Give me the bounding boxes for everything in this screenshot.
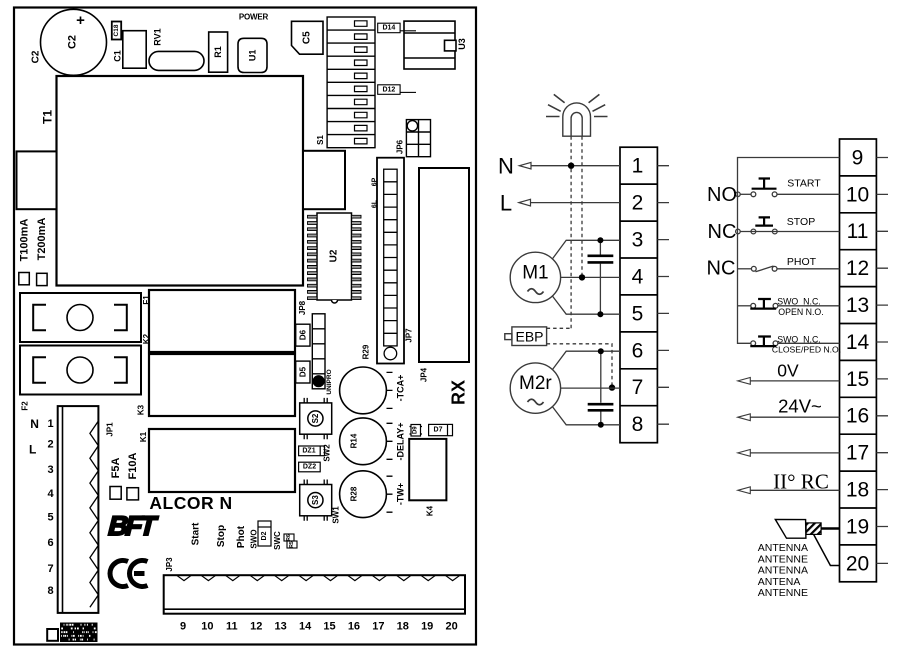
CE mark bbox=[110, 561, 148, 587]
svg-text:JP1: JP1 bbox=[106, 422, 115, 437]
svg-text:R5: R5 bbox=[289, 541, 295, 548]
svg-text:R1: R1 bbox=[213, 46, 223, 58]
svg-text:9: 9 bbox=[180, 621, 186, 633]
wire M1 to terminal 5 bbox=[552, 296, 620, 314]
svg-text:D9: D9 bbox=[413, 426, 419, 434]
svg-text:STOP: STOP bbox=[787, 216, 815, 228]
svg-text:24V~: 24V~ bbox=[778, 396, 822, 417]
zener DZ2 bbox=[299, 462, 321, 472]
svg-text:S3: S3 bbox=[311, 495, 320, 505]
svg-text:UNIPRO: UNIPRO bbox=[326, 369, 333, 394]
fuse option T200mA bbox=[36, 218, 48, 286]
fuse label F5A bbox=[110, 458, 122, 500]
fuse F1 bbox=[20, 293, 141, 342]
relay K3 bbox=[137, 354, 296, 416]
svg-text:16: 16 bbox=[348, 621, 360, 633]
svg-text:JP6: JP6 bbox=[396, 139, 405, 154]
diode D6 bbox=[296, 324, 310, 346]
right stubs 1-8 bbox=[657, 166, 669, 425]
svg-text:4: 4 bbox=[47, 488, 54, 500]
svg-text:F5A: F5A bbox=[110, 458, 122, 479]
svg-text:6L: 6L bbox=[371, 199, 378, 208]
svg-text:ANTENNA: ANTENNA bbox=[758, 565, 808, 577]
svg-text:5: 5 bbox=[632, 302, 644, 325]
svg-text:F2: F2 bbox=[21, 401, 30, 411]
EBP module bbox=[505, 327, 547, 346]
wire M2r to terminal 7 bbox=[561, 387, 620, 389]
transformer T1 bbox=[41, 76, 304, 286]
svg-text:14: 14 bbox=[299, 621, 312, 633]
barcode checkbox bbox=[47, 629, 58, 641]
connector JP7 bbox=[377, 158, 414, 364]
svg-text:3: 3 bbox=[632, 228, 644, 251]
terminal numbers 9-20 bbox=[846, 146, 870, 575]
svg-text:SWO N.C.: SWO N.C. bbox=[777, 297, 821, 307]
svg-text:-TCA+: -TCA+ bbox=[396, 375, 406, 402]
L arrow bbox=[519, 199, 531, 206]
svg-text:5: 5 bbox=[47, 511, 53, 523]
diode array S1 bbox=[316, 17, 375, 148]
svg-text:RX: RX bbox=[449, 380, 469, 405]
svg-text:15: 15 bbox=[323, 621, 335, 633]
capacitor C1 bbox=[113, 31, 147, 68]
resistor R5 bbox=[287, 541, 297, 548]
svg-text:D7: D7 bbox=[434, 427, 443, 434]
junction dot EBP/terminal7 bbox=[609, 384, 615, 390]
svg-text:M2r: M2r bbox=[519, 373, 552, 394]
wire M1 to terminal 4 bbox=[561, 276, 620, 278]
svg-text:Phot: Phot bbox=[236, 525, 247, 548]
common bus wire bbox=[738, 158, 840, 344]
motor M1 bbox=[510, 252, 560, 302]
svg-text:K1: K1 bbox=[139, 431, 148, 442]
capacitor C-M2 bbox=[588, 348, 614, 428]
svg-text:16: 16 bbox=[846, 405, 869, 428]
svg-text:14: 14 bbox=[846, 331, 870, 354]
svg-text:11: 11 bbox=[847, 220, 869, 243]
svg-text:ANTENNA: ANTENNA bbox=[758, 542, 808, 554]
svg-text:F10A: F10A bbox=[127, 452, 139, 479]
svg-text:C2: C2 bbox=[31, 50, 42, 63]
diode D14 label bbox=[378, 23, 416, 33]
svg-text:10: 10 bbox=[201, 621, 213, 633]
svg-text:17: 17 bbox=[846, 442, 869, 465]
svg-text:JP7: JP7 bbox=[405, 328, 414, 343]
terminal strip JP3 bbox=[164, 557, 465, 614]
svg-text:12: 12 bbox=[250, 621, 262, 633]
svg-text:0V: 0V bbox=[777, 361, 799, 381]
svg-text:T200mA: T200mA bbox=[36, 218, 48, 261]
transformer right tab bbox=[303, 151, 345, 209]
junction dot N bbox=[568, 163, 574, 169]
svg-text:START: START bbox=[787, 178, 821, 190]
connector U3 bbox=[404, 21, 467, 69]
terminal block JP1 bbox=[58, 406, 115, 613]
wire N to terminal 1 bbox=[528, 165, 621, 167]
capacitor C2 bbox=[41, 9, 107, 75]
svg-text:8: 8 bbox=[47, 585, 53, 597]
svg-text:S2: S2 bbox=[311, 413, 320, 423]
svg-text:7: 7 bbox=[632, 376, 644, 399]
button S2 bbox=[300, 398, 332, 439]
svg-text:RV1: RV1 bbox=[153, 28, 163, 45]
terminal strip 9-20 bbox=[840, 139, 877, 582]
svg-text:SWO N.C.: SWO N.C. bbox=[777, 334, 821, 344]
svg-text:R6: R6 bbox=[286, 534, 292, 541]
svg-text:U1: U1 bbox=[248, 50, 258, 62]
svg-text:NC: NC bbox=[707, 257, 736, 279]
zener DZ1 bbox=[299, 446, 325, 456]
svg-text:D2: D2 bbox=[261, 531, 268, 540]
svg-text:-DELAY+: -DELAY+ bbox=[396, 423, 406, 461]
svg-text:10: 10 bbox=[846, 183, 869, 206]
svg-text:7: 7 bbox=[47, 563, 53, 575]
svg-text:R28: R28 bbox=[350, 486, 359, 501]
wire M2r to terminal 8 bbox=[552, 407, 620, 425]
wire 17 bbox=[749, 452, 839, 454]
svg-text:JP4: JP4 bbox=[420, 367, 429, 382]
svg-text:4: 4 bbox=[632, 265, 644, 288]
IC U2 bbox=[308, 213, 362, 303]
svg-text:9: 9 bbox=[852, 146, 864, 169]
relay K2 bbox=[142, 290, 295, 352]
svg-text:DZ1: DZ1 bbox=[302, 448, 315, 455]
svg-text:6: 6 bbox=[47, 537, 53, 549]
svg-text:11: 11 bbox=[226, 621, 238, 633]
relay K1 bbox=[139, 429, 295, 492]
svg-text:U2: U2 bbox=[329, 249, 340, 262]
right stubs 9-20 bbox=[876, 158, 888, 564]
svg-text:13: 13 bbox=[275, 621, 287, 633]
BFT logo bbox=[105, 510, 160, 541]
svg-text:18: 18 bbox=[397, 621, 409, 633]
svg-text:-TW+: -TW+ bbox=[396, 483, 406, 505]
svg-text:D12: D12 bbox=[382, 86, 395, 93]
lamp rays bbox=[546, 94, 608, 116]
svg-text:M1: M1 bbox=[522, 263, 548, 284]
svg-text:CLOSE/PED N.O.: CLOSE/PED N.O. bbox=[772, 344, 841, 354]
resistor R1 bbox=[209, 32, 228, 72]
svg-text:EBP: EBP bbox=[515, 328, 543, 344]
svg-text:K4: K4 bbox=[426, 505, 435, 516]
IC U1 bbox=[238, 38, 267, 72]
svg-text:1: 1 bbox=[47, 418, 53, 430]
trimmer R28 bbox=[340, 471, 393, 518]
24V wire (16) bbox=[749, 416, 839, 418]
svg-text:C1: C1 bbox=[113, 50, 123, 62]
svg-text:C18: C18 bbox=[113, 24, 120, 36]
svg-text:18: 18 bbox=[846, 479, 869, 502]
svg-text:20: 20 bbox=[445, 621, 457, 633]
svg-text:NO: NO bbox=[707, 184, 737, 206]
fuse F2 bbox=[20, 346, 141, 395]
svg-text:K3: K3 bbox=[137, 404, 146, 415]
SWO CLOSE switch (14) bbox=[750, 337, 778, 347]
0V wire (15) bbox=[749, 380, 839, 382]
antenna labels bbox=[758, 542, 808, 599]
svg-text:8: 8 bbox=[632, 413, 644, 436]
transformer left tab bbox=[17, 151, 57, 209]
serial barcode label bbox=[60, 623, 98, 643]
svg-text:L: L bbox=[29, 443, 36, 457]
EBP dashed wire to terminal 7 bbox=[547, 344, 612, 388]
wire M1 to terminal 3 bbox=[552, 240, 620, 259]
svg-text:6P: 6P bbox=[371, 177, 378, 186]
diode D5 bbox=[296, 361, 310, 383]
svg-text:19: 19 bbox=[421, 621, 433, 633]
terminal strip 1-8 bbox=[620, 147, 657, 443]
svg-text:L: L bbox=[500, 191, 512, 216]
svg-text:T1: T1 bbox=[41, 110, 55, 124]
UNIPRO connector bbox=[312, 314, 333, 395]
START switch NO bbox=[736, 179, 840, 197]
svg-text:NC: NC bbox=[708, 221, 737, 243]
button S3 bbox=[300, 480, 332, 521]
EBP dashed wire to lamp branch bbox=[547, 327, 572, 329]
capacitor C-M1 bbox=[588, 237, 614, 317]
junction dot lamp/terminal4 bbox=[579, 274, 585, 280]
svg-text:ANTENNE: ANTENNE bbox=[758, 587, 808, 599]
JP1 terminal labels N L 1-8 bbox=[29, 417, 54, 597]
motor M2r bbox=[510, 363, 560, 413]
svg-text:OPEN N.O.: OPEN N.O. bbox=[778, 307, 823, 317]
svg-text:POWER: POWER bbox=[239, 13, 269, 22]
relay K4 bbox=[409, 439, 446, 516]
svg-text:T100mA: T100mA bbox=[18, 219, 30, 262]
JP3 numbers 9-20 bbox=[180, 621, 458, 633]
svg-text:D5: D5 bbox=[298, 366, 307, 377]
lamp dashed wire left bbox=[570, 136, 572, 328]
svg-text:19: 19 bbox=[846, 515, 869, 538]
svg-text:S1: S1 bbox=[316, 135, 325, 145]
N arrow bbox=[519, 162, 531, 169]
svg-text:C5: C5 bbox=[302, 31, 313, 44]
fuse label F10A bbox=[127, 452, 139, 499]
svg-text:Start: Start bbox=[191, 522, 202, 545]
capacitor C5 bbox=[292, 21, 324, 54]
svg-text:DZ2: DZ2 bbox=[303, 464, 316, 471]
svg-text:+: + bbox=[76, 12, 85, 29]
wire L to terminal 2 bbox=[527, 202, 620, 204]
capacitor C18 bbox=[112, 22, 121, 40]
svg-text:6: 6 bbox=[632, 339, 644, 362]
jumper JP6 bbox=[396, 120, 431, 157]
svg-text:3: 3 bbox=[47, 464, 53, 476]
svg-text:JP8: JP8 bbox=[298, 300, 307, 315]
svg-text:SWO: SWO bbox=[250, 529, 259, 548]
svg-text:SWC: SWC bbox=[273, 531, 282, 550]
wire M2r to terminal 6 bbox=[552, 351, 620, 369]
resistor R6 bbox=[284, 534, 294, 541]
svg-text:2: 2 bbox=[47, 439, 53, 451]
svg-text:Stop: Stop bbox=[216, 525, 227, 547]
svg-text:D14: D14 bbox=[382, 25, 395, 32]
svg-text:20: 20 bbox=[846, 552, 869, 575]
svg-text:R14: R14 bbox=[350, 433, 359, 448]
lamp dashed wire right bbox=[581, 136, 583, 277]
svg-text:ANTENA: ANTENA bbox=[758, 576, 801, 588]
connector JP4 bbox=[419, 168, 469, 382]
PHOT switch NC bbox=[738, 266, 840, 272]
blinker lamp bbox=[563, 103, 591, 136]
fuse option T100mA bbox=[18, 219, 30, 285]
II RC wire (18) bbox=[749, 489, 839, 491]
trimmer R14 bbox=[340, 418, 393, 465]
PCB board outline bbox=[14, 8, 476, 645]
svg-text:2: 2 bbox=[632, 192, 644, 215]
svg-text:ANTENNE: ANTENNE bbox=[758, 553, 808, 565]
svg-text:17: 17 bbox=[372, 621, 384, 633]
trimmer R29 bbox=[340, 367, 393, 414]
diode D7 bbox=[429, 424, 453, 435]
svg-text:K2: K2 bbox=[142, 333, 151, 344]
svg-text:PHOT: PHOT bbox=[787, 256, 817, 268]
svg-text:II° RC: II° RC bbox=[773, 470, 829, 494]
diode D9 bbox=[410, 425, 423, 437]
svg-text:N: N bbox=[30, 417, 39, 431]
svg-text:D6: D6 bbox=[298, 329, 307, 340]
svg-text:N: N bbox=[498, 154, 514, 179]
varistor RV1 bbox=[149, 28, 204, 70]
SWO OPEN switch (13) bbox=[738, 305, 751, 307]
svg-text:SW1: SW1 bbox=[332, 506, 341, 524]
svg-text:12: 12 bbox=[846, 257, 869, 280]
diode D2 bbox=[258, 521, 271, 546]
svg-text:1: 1 bbox=[632, 155, 644, 178]
svg-text:ALCOR N: ALCOR N bbox=[149, 493, 232, 513]
svg-text:C2: C2 bbox=[67, 35, 79, 49]
svg-text:U3: U3 bbox=[457, 38, 467, 50]
svg-text:JP3: JP3 bbox=[165, 557, 174, 572]
antenna connector bbox=[775, 519, 839, 565]
STOP switch NC bbox=[736, 217, 840, 234]
svg-text:13: 13 bbox=[846, 294, 869, 317]
svg-text:R29: R29 bbox=[362, 344, 371, 359]
terminal numbers 1-8 bbox=[632, 155, 644, 437]
diode D12 label bbox=[378, 85, 416, 95]
svg-text:15: 15 bbox=[846, 368, 869, 391]
